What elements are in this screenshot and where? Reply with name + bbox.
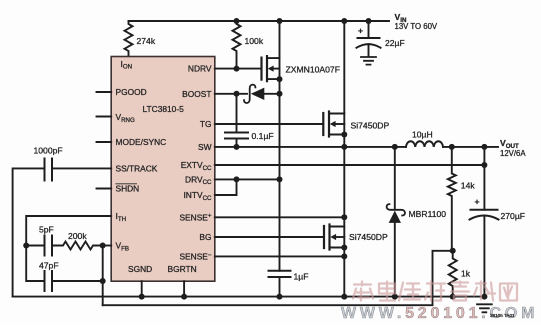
wire inductor to VOUT xyxy=(443,146,498,148)
wire SENSE+ xyxy=(215,216,344,218)
wire PGOOD stub xyxy=(97,91,112,93)
svg-text:22µF: 22µF xyxy=(385,38,405,48)
svg-text:200k: 200k xyxy=(68,231,87,241)
wire DRVCC xyxy=(215,178,280,180)
node DRVCC/1uF junction xyxy=(277,176,283,182)
node ZXMN drain on rail xyxy=(277,18,283,24)
ground symbol output xyxy=(477,304,492,312)
node 47pF junction xyxy=(100,278,106,284)
svg-text:1000pF: 1000pF xyxy=(34,146,63,156)
wire SS/TRACK to 1000pF xyxy=(52,167,111,169)
svg-text:1µF: 1µF xyxy=(294,272,309,282)
svg-text:SENSE+: SENSE+ xyxy=(179,212,211,222)
node BOOST cap junction xyxy=(234,91,240,97)
node 1uF on rail xyxy=(277,294,283,300)
resistor 274k xyxy=(125,21,133,57)
wire 1000pF to left rail xyxy=(13,168,45,296)
wire boost node down to DRVCC xyxy=(279,94,281,180)
wire feedback rail B xyxy=(103,251,453,305)
wire 0.1uF to SW xyxy=(236,139,238,147)
wire MODE/SYNC stub xyxy=(97,141,112,143)
wire FB vertical down to rail B xyxy=(102,246,104,306)
svg-text:ZXMN10A07F: ZXMN10A07F xyxy=(286,65,340,75)
diode D1 bootstrap schottky xyxy=(244,85,280,103)
node divider midpoint xyxy=(450,248,456,254)
wire 47pF to FB vertical xyxy=(52,280,103,282)
svg-text:Si7450DP: Si7450DP xyxy=(351,121,390,131)
node DRVCC/INTVCC junction xyxy=(234,176,240,182)
node 1k on rail xyxy=(450,294,456,300)
wire TG xyxy=(215,123,323,125)
node MBR1100 on rail xyxy=(392,294,398,300)
node Q2 drain on rail xyxy=(341,18,347,24)
capacitor C 270uF xyxy=(470,147,499,297)
node SENSE- junction xyxy=(341,253,347,259)
node VFB junction xyxy=(100,243,106,249)
wire ITH down to node xyxy=(26,216,111,246)
capacitor C 47pF xyxy=(45,271,53,291)
wire INTVCC L xyxy=(215,179,237,195)
wire BG xyxy=(215,236,324,238)
svg-text:SGND: SGND xyxy=(128,264,152,274)
IC U1 LTC3810-5 body xyxy=(111,57,215,282)
svg-text:SENSE−: SENSE− xyxy=(179,251,211,261)
svg-text:TG: TG xyxy=(200,119,212,129)
transistor Q1 ZXMN10A07F xyxy=(262,56,280,81)
node SGND junction xyxy=(139,294,145,300)
wire VRNG stub xyxy=(97,116,112,118)
wire SW down to Q3 drain xyxy=(343,147,345,227)
wire Q3 source to ground rail xyxy=(343,248,345,297)
wire ZXMN source down xyxy=(279,79,281,94)
node 22uF on rail xyxy=(366,18,372,24)
svg-text:274k: 274k xyxy=(137,36,156,46)
svg-text:PGOOD: PGOOD xyxy=(116,87,147,97)
ground symbol input xyxy=(361,57,376,65)
wire EXTVCC xyxy=(215,164,485,166)
node diode anode junction xyxy=(277,91,283,97)
svg-text:10µH: 10µH xyxy=(412,129,433,139)
capacitor C 22uF input xyxy=(357,21,381,57)
svg-text:MBR1100: MBR1100 xyxy=(409,209,447,219)
svg-text:SW: SW xyxy=(198,142,212,152)
wire Q2 source to SW xyxy=(343,135,345,147)
svg-text:NDRV: NDRV xyxy=(188,64,212,74)
node MBR1100 on SW xyxy=(392,144,398,150)
svg-text:Si7450DP: Si7450DP xyxy=(349,232,388,242)
wire SGND stub xyxy=(141,281,143,296)
resistor 14k xyxy=(448,147,456,251)
node 100k on rail xyxy=(234,18,240,24)
resistor 1k xyxy=(449,251,457,297)
svg-text:BGRTN: BGRTN xyxy=(168,264,197,274)
node Q3 source on rail xyxy=(341,294,347,300)
node Q3 source corner xyxy=(341,245,347,251)
svg-text:100k: 100k xyxy=(245,36,264,46)
wire BGRTN stub xyxy=(183,281,185,296)
node 270uF on rail xyxy=(481,294,487,300)
svg-text:+: + xyxy=(358,26,363,36)
svg-text:14k: 14k xyxy=(461,181,476,191)
svg-text:5pF: 5pF xyxy=(39,225,54,235)
watermark row 1 pseudo hanzi xyxy=(353,282,517,301)
node NDRV/100k junction xyxy=(234,66,240,72)
wire 1uF to ground rail xyxy=(279,277,281,297)
node EXTVCC to VOUT cap xyxy=(481,162,487,168)
capacitor C 1uF xyxy=(269,271,291,277)
node 270uF on VOUT xyxy=(481,144,487,150)
svg-text:47pF: 47pF xyxy=(39,261,59,271)
node Q2 source on SW xyxy=(341,144,347,150)
wire SW line xyxy=(215,146,406,148)
node Q2 source corner xyxy=(341,132,347,138)
wire Q2 drain to VIN rail xyxy=(343,21,345,114)
svg-text:SS/TRACK: SS/TRACK xyxy=(116,164,158,174)
wire top VIN rail xyxy=(129,20,390,22)
transistor Q3 Si7450DP bottom xyxy=(324,225,344,250)
svg-text:+: + xyxy=(475,197,480,207)
capacitor C 5pF xyxy=(45,236,53,256)
svg-text:LTC3810-5: LTC3810-5 xyxy=(143,104,185,114)
svg-text:BG: BG xyxy=(199,232,211,242)
wire VFB pin xyxy=(103,245,112,247)
inductor L1 10uH xyxy=(406,141,443,147)
wire comp row xyxy=(26,245,44,247)
wire left vertical 5pF/47pF xyxy=(26,246,44,282)
node 14k on VOUT xyxy=(449,144,455,150)
wire NDRV xyxy=(215,68,262,70)
transistor Q2 Si7450DP top xyxy=(323,112,344,137)
wire ZXMN drain to VIN rail xyxy=(279,21,281,58)
wire SENSE- xyxy=(215,255,344,257)
wire DRVCC node down to 1uF xyxy=(279,179,281,270)
node ZXMN source xyxy=(277,76,283,82)
svg-text:12V/6A: 12V/6A xyxy=(500,149,526,158)
svg-text:SHDN: SHDN xyxy=(116,184,140,194)
svg-text:BOOST: BOOST xyxy=(182,89,211,99)
wire BOOST xyxy=(215,93,247,95)
wire ground rail A xyxy=(13,296,485,298)
svg-text:38105 TA01: 38105 TA01 xyxy=(490,313,515,318)
node SENSE+ junction xyxy=(341,214,347,220)
svg-text:1k: 1k xyxy=(461,269,471,279)
capacitor C 1000pF xyxy=(45,159,53,181)
node ITH/comp junction xyxy=(23,243,29,249)
svg-text:MODE/SYNC: MODE/SYNC xyxy=(116,137,167,147)
svg-text:270µF: 270µF xyxy=(501,211,526,221)
svg-text:13V TO 60V: 13V TO 60V xyxy=(395,22,438,31)
resistor 200k xyxy=(52,242,103,250)
wire BOOST to 0.1uF xyxy=(236,94,238,133)
wire SHDN stub xyxy=(97,188,112,190)
diode D2 MBR1100 schottky xyxy=(387,147,405,297)
svg-text:0.1µF: 0.1µF xyxy=(252,131,274,141)
node 0.1uF/SW junction xyxy=(234,144,240,150)
resistor 100k xyxy=(233,21,241,69)
capacitor C 0.1uF xyxy=(225,133,248,139)
node BGRTN junction xyxy=(181,294,187,300)
